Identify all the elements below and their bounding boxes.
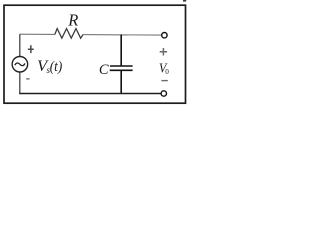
svg-text:C: C — [99, 62, 109, 78]
svg-text:(t): (t) — [50, 59, 62, 75]
svg-text:0: 0 — [165, 68, 169, 76]
svg-text:R: R — [67, 11, 78, 30]
